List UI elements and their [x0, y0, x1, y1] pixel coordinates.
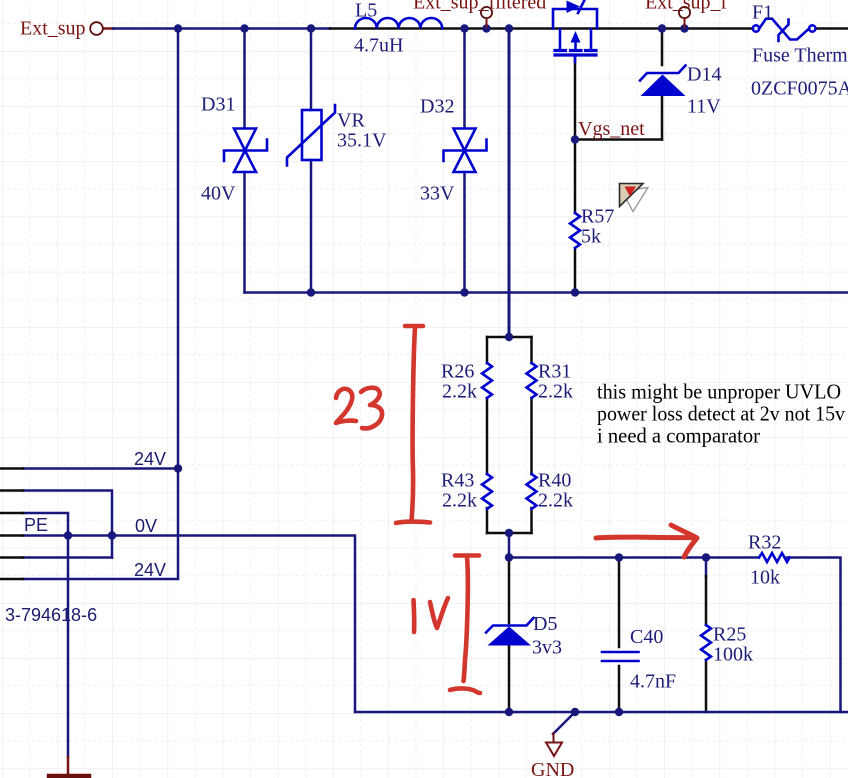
transistor Q1 source lead — [559, 29, 562, 49]
fuse F1 cross stroke — [779, 20, 789, 42]
svg-text:VR: VR — [337, 110, 365, 132]
diode D5 cathode bar — [486, 618, 534, 633]
wire Vgs_net horizontal — [575, 138, 662, 141]
diode D14 triangle — [641, 75, 686, 97]
svg-text:GND: GND — [531, 759, 574, 778]
terminal Ext_sup_filtered — [481, 7, 492, 28]
svg-text:R43: R43 — [441, 470, 474, 492]
junction dots top rail — [174, 24, 182, 32]
svg-text:Ext_sup_filtered: Ext_sup_filtered — [413, 0, 546, 14]
svg-text:this might be unproper UVLO: this might be unproper UVLO — [597, 380, 841, 404]
diode D5 triangle — [488, 627, 532, 646]
wire D32 branch — [463, 29, 466, 293]
wire divider right chain — [530, 337, 533, 533]
svg-text:2.2k: 2.2k — [442, 490, 477, 512]
annotation letter v — [430, 598, 448, 628]
resistor R40 zigzag — [527, 474, 537, 509]
svg-text:power loss detect at 2v not 15: power loss detect at 2v not 15v — [597, 402, 845, 426]
wire PE earth lead maroon — [67, 757, 70, 776]
error marker — [620, 184, 649, 212]
svg-text:3v3: 3v3 — [532, 637, 562, 659]
wire D31 branch — [243, 29, 246, 293]
wire Ext_sup stub (maroon) — [103, 27, 114, 30]
wire top rail navy section — [113, 27, 330, 30]
wire R25 branch — [705, 558, 708, 578]
wire D5 branch black — [508, 558, 511, 713]
junction dots bus y292 — [307, 288, 315, 296]
connector pin stubs black — [0, 469, 23, 580]
TVS D32 top triangle — [454, 129, 476, 151]
resistor R57 zigzag — [570, 213, 580, 248]
transistor Q1 top diode bar — [578, 0, 585, 13]
wire divider tap down — [508, 533, 511, 558]
wire GND stub maroon — [553, 733, 555, 742]
fuse F1 left circle — [753, 25, 759, 31]
fuse F1 element — [759, 19, 809, 40]
junction dot 24V — [174, 464, 182, 472]
wire top rail after fuse — [816, 27, 848, 30]
resistor R32 zigzag horizontal — [759, 553, 790, 562]
varistor VR diagonal — [287, 105, 335, 166]
wire D14 branch black — [661, 29, 664, 140]
transistor Q1 bulk arrow stem — [574, 41, 577, 49]
junction dots 0V — [64, 531, 72, 539]
wire pin2 and drop x112 — [23, 491, 112, 558]
TVS D32 bottom triangle — [454, 151, 476, 173]
resistor R26 zigzag — [482, 363, 492, 398]
wire GND tap diagonal — [553, 712, 575, 734]
svg-text:D32: D32 — [420, 96, 454, 118]
svg-text:40V: 40V — [201, 183, 236, 205]
svg-text:Fuse Thermal: Fuse Thermal — [752, 45, 848, 67]
wire gate drop x575 — [574, 58, 577, 293]
svg-text:R57: R57 — [581, 206, 614, 228]
annotation bracket 1v — [450, 556, 480, 694]
resistor R25 zigzag — [701, 625, 711, 660]
svg-text:Ext_sup_f: Ext_sup_f — [645, 0, 728, 14]
diode D14 cathode bar — [640, 66, 686, 81]
resistor R31 zigzag — [527, 363, 537, 398]
ground GND symbol — [546, 743, 562, 757]
svg-text:4.7nF: 4.7nF — [630, 671, 676, 693]
wire C40 branch — [618, 558, 621, 648]
wire mid rail y557 — [509, 556, 759, 559]
wire divider bottom bar — [487, 532, 532, 535]
svg-text:D31: D31 — [201, 94, 235, 116]
wire PE pin — [23, 513, 68, 757]
svg-text:3-794618-6: 3-794618-6 — [5, 605, 97, 625]
earth strap — [49, 774, 89, 778]
svg-text:R40: R40 — [538, 470, 571, 492]
svg-text:0V: 0V — [135, 516, 157, 536]
svg-text:2.2k: 2.2k — [442, 381, 477, 403]
wire Ext_sup_filtered sense drop x509 — [508, 29, 511, 338]
transistor Q1 body outline — [553, 9, 597, 29]
svg-text:100k: 100k — [713, 644, 753, 666]
svg-text:33V: 33V — [420, 183, 455, 205]
wire 24V top pin — [23, 467, 178, 470]
wire gnd bus y712 — [355, 711, 848, 714]
svg-text:2.2k: 2.2k — [538, 381, 573, 403]
svg-text:Ext_sup: Ext_sup — [20, 18, 86, 40]
svg-text:i need a comparator: i need a comparator — [597, 424, 760, 448]
svg-text:R26: R26 — [441, 361, 474, 383]
transistor Q1 top diode arrow — [567, 1, 581, 14]
terminal Ext_sup_f — [679, 7, 690, 28]
junction dots gnd bus — [505, 708, 513, 716]
TVS D31 top triangle — [234, 129, 256, 151]
wire divider top bar — [487, 336, 532, 339]
wire VR branch — [310, 29, 313, 293]
wire 24V lower pin — [23, 578, 178, 581]
svg-text:D14: D14 — [687, 64, 721, 86]
junction dots divider — [505, 333, 513, 341]
wire divider left chain — [486, 337, 489, 533]
transistor Q1 gate bar — [555, 53, 596, 56]
annotation digit 3 — [361, 388, 382, 429]
svg-text:5k: 5k — [581, 226, 601, 248]
wire pin5 y557 — [23, 556, 112, 559]
svg-text:PE: PE — [24, 515, 48, 535]
svg-text:F1: F1 — [752, 2, 773, 24]
transistor Q1 drain lead — [590, 29, 593, 49]
svg-text:R31: R31 — [538, 361, 571, 383]
wire vertical x178 — [177, 29, 180, 579]
svg-text:Vgs_net: Vgs_net — [578, 118, 645, 140]
annotation arrow — [596, 525, 697, 557]
svg-text:0ZCF0075AF: 0ZCF0075AF — [751, 78, 848, 100]
svg-text:R25: R25 — [713, 624, 746, 646]
inductor L5 — [355, 18, 442, 29]
transistor Q1 plates — [555, 49, 596, 52]
wire top rail black section to fuse — [330, 27, 751, 30]
resistor R43 zigzag — [482, 474, 492, 509]
TVS D32 bar — [444, 140, 487, 162]
svg-text:10k: 10k — [750, 567, 780, 589]
wire R32 right to corner — [787, 558, 841, 713]
varistor VR body — [302, 110, 322, 160]
transistor Q1 bulk arrow — [571, 31, 581, 43]
svg-text:R32: R32 — [748, 532, 781, 554]
svg-text:4.7uH: 4.7uH — [354, 35, 403, 57]
annotation bracket 23 — [396, 326, 430, 523]
annotation digit 2 — [336, 389, 356, 423]
svg-text:11V: 11V — [687, 96, 721, 118]
svg-text:C40: C40 — [630, 626, 663, 648]
junction dot Vgs node — [571, 135, 579, 143]
svg-text:24V: 24V — [134, 560, 166, 580]
annotation digit 1 — [411, 600, 416, 632]
fuse F1 right circle — [809, 25, 815, 31]
wire bus y292 — [245, 291, 848, 294]
terminal Ext_sup — [90, 22, 103, 35]
svg-text:35.1V: 35.1V — [337, 130, 387, 152]
RED ANNOTATIONS — [336, 326, 697, 693]
svg-text:L5: L5 — [355, 0, 377, 22]
wire 0V run and drop — [23, 536, 355, 713]
TVS D31 bar — [224, 140, 267, 162]
transistor Q1 gate lead — [574, 57, 577, 63]
capacitor C40 plates — [602, 652, 639, 661]
svg-text:24V: 24V — [134, 449, 166, 469]
svg-text:2.2k: 2.2k — [538, 490, 573, 512]
junction dots mid rail — [505, 553, 513, 561]
svg-text:D5: D5 — [533, 613, 557, 635]
TVS D31 bottom triangle — [234, 151, 256, 173]
